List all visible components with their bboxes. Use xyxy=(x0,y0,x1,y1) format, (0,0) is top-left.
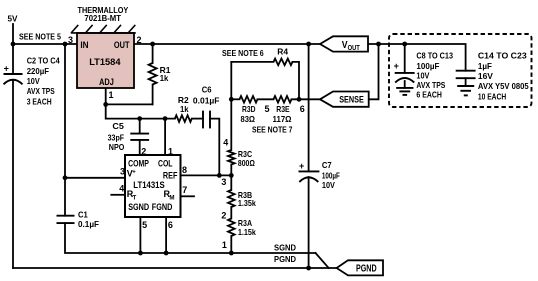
junction C7 branch top xyxy=(306,42,311,47)
svg-text:IN: IN xyxy=(80,40,88,51)
wire sense line between R3D R3E xyxy=(258,98,274,100)
wire node at x65 down to V+ xyxy=(64,44,66,178)
svg-text:C7: C7 xyxy=(322,160,332,170)
svg-text:+: + xyxy=(4,64,9,74)
svg-text:R3D: R3D xyxy=(242,104,256,114)
svg-text:6 EACH: 6 EACH xyxy=(416,89,442,99)
output flag VOUT xyxy=(320,36,368,51)
svg-text:SENSE: SENSE xyxy=(339,94,364,105)
svg-text:OUT: OUT xyxy=(114,40,130,51)
svg-text:7: 7 xyxy=(182,185,187,195)
junction C8 top xyxy=(402,42,407,47)
wire C7 branch upper xyxy=(308,44,310,171)
capacitor C5 33pF xyxy=(130,133,149,135)
junction REF R3 pin3 xyxy=(229,173,234,178)
wire R2 to C6 left plate xyxy=(192,118,203,120)
svg-text:1k: 1k xyxy=(160,73,169,83)
svg-text:1.15k: 1.15k xyxy=(238,227,256,237)
wire R3C to REF node pin 3 xyxy=(230,165,232,191)
svg-text:10V: 10V xyxy=(27,76,40,86)
svg-text:100µF: 100µF xyxy=(416,61,439,71)
svg-text:3: 3 xyxy=(221,177,226,187)
wire 5V vertical below C2 to PGND rail xyxy=(12,80,14,268)
junction R1 top xyxy=(150,42,155,47)
svg-text:OUT: OUT xyxy=(348,45,361,52)
resistor R2 1k xyxy=(175,115,192,122)
svg-text:1: 1 xyxy=(168,146,173,156)
wire R1 bottom lead xyxy=(152,85,154,105)
wire bypass rail to C14 xyxy=(405,44,466,71)
junction SGND pin6 xyxy=(164,251,169,256)
svg-text:800Ω: 800Ω xyxy=(238,158,255,168)
svg-text:10V: 10V xyxy=(322,180,335,190)
resistor R1 1k xyxy=(149,63,157,85)
svg-text:+: + xyxy=(394,61,399,71)
svg-text:83Ω: 83Ω xyxy=(241,114,256,124)
wire C5 bottom lead to COMP pin 2 xyxy=(139,140,141,155)
svg-text:AVX TPS: AVX TPS xyxy=(27,86,55,96)
resistor R3E 117ohm xyxy=(274,96,292,103)
svg-text:10V: 10V xyxy=(416,71,429,81)
svg-text:0.01µF: 0.01µF xyxy=(193,95,220,105)
wire C5 top lead xyxy=(139,119,141,134)
svg-text:ADJ: ADJ xyxy=(99,77,114,88)
svg-text:1k: 1k xyxy=(180,104,189,114)
svg-text:100µF: 100µF xyxy=(322,170,340,180)
svg-text:10 EACH: 10 EACH xyxy=(478,91,506,101)
svg-text:AVX Y5V 0805: AVX Y5V 0805 xyxy=(478,81,529,91)
regulator U1 LT1584 body xyxy=(77,33,134,88)
svg-text:220µF: 220µF xyxy=(27,66,49,76)
output flag SENSE xyxy=(320,92,369,107)
resistor R3D 83ohm xyxy=(240,96,258,103)
wire ADJ node down and right to R2 xyxy=(106,104,175,118)
capacitor C7 100uF xyxy=(299,170,320,172)
capacitor C2-C4 input xyxy=(4,73,23,75)
svg-text:5V: 5V xyxy=(8,14,18,24)
wire FGND pin 6 xyxy=(165,217,167,253)
svg-text:C14 TO C23: C14 TO C23 xyxy=(478,50,527,60)
svg-text:PGND: PGND xyxy=(274,254,296,264)
wire SENSE flag right kelvin connection xyxy=(369,44,379,99)
junction PGND C7 xyxy=(306,266,311,271)
svg-text:4: 4 xyxy=(119,184,124,194)
svg-text:T: T xyxy=(133,194,137,201)
wire sense line left xyxy=(231,98,239,100)
svg-text:8: 8 xyxy=(182,165,187,175)
wire SGND pin 5 xyxy=(139,217,141,253)
wire RT pin 4 stub xyxy=(111,194,125,196)
svg-text:1: 1 xyxy=(109,90,114,100)
svg-text:SEE NOTE 5: SEE NOTE 5 xyxy=(19,32,61,42)
junction 5V rail left xyxy=(11,42,16,47)
resistor R3C 800ohm xyxy=(228,150,235,165)
junction C5 tap xyxy=(137,116,142,121)
wire R3 network top lead pin 4 xyxy=(230,99,232,150)
wire OUT pin to VOUT flag xyxy=(134,43,320,45)
svg-text:2: 2 xyxy=(141,146,146,156)
svg-text:R3E: R3E xyxy=(276,104,290,114)
wire C14 ground lead xyxy=(465,78,467,86)
svg-text:3: 3 xyxy=(68,35,73,45)
svg-text:SEE NOTE 7: SEE NOTE 7 xyxy=(252,124,293,134)
wire RM pin 7 stub xyxy=(181,195,195,197)
svg-text:PGND: PGND xyxy=(356,264,377,275)
junction REF C6 xyxy=(217,173,222,178)
wire 5V input vertical xyxy=(12,24,14,74)
svg-text:6: 6 xyxy=(168,220,173,230)
svg-text:1: 1 xyxy=(222,240,227,250)
capacitor C14-C23 xyxy=(456,70,476,72)
junction SGND pin5 xyxy=(138,251,143,256)
svg-text:3: 3 xyxy=(120,167,125,177)
svg-text:33pF: 33pF xyxy=(108,132,125,142)
svg-text:117Ω: 117Ω xyxy=(273,114,292,124)
wire R1 top lead xyxy=(152,44,154,63)
svg-text:NPO: NPO xyxy=(109,142,125,152)
svg-text:6: 6 xyxy=(300,104,305,114)
capacitor C8-C13 xyxy=(395,72,415,74)
wire SGND diagonal to PGND xyxy=(316,253,329,268)
svg-text:COMP: COMP xyxy=(128,159,149,169)
wire ADJ node to R1 xyxy=(106,103,153,105)
junction sense line left xyxy=(229,97,234,102)
svg-text:7021B-MT: 7021B-MT xyxy=(84,13,121,23)
svg-text:COL: COL xyxy=(158,158,173,168)
svg-text:3 EACH: 3 EACH xyxy=(27,96,52,106)
junction SGND R3A xyxy=(229,251,234,256)
svg-text:1µF: 1µF xyxy=(478,61,492,71)
shunt regulator U2 LT1431S body xyxy=(125,155,181,217)
junction sense line right xyxy=(297,97,302,102)
svg-text:+: + xyxy=(299,161,304,171)
wire VOUT flag to bypass box xyxy=(368,43,405,45)
wire R4 branch left vertical xyxy=(230,62,232,99)
junction VOUT right xyxy=(376,42,381,47)
svg-text:LT1431S: LT1431S xyxy=(133,180,164,190)
heatsink line THERMALLOY xyxy=(71,32,136,34)
wire V+ pin 3 xyxy=(65,177,125,179)
wire sense line to SENSE flag xyxy=(292,98,321,100)
capacitor C6 0.01uF xyxy=(202,111,204,129)
svg-text:5: 5 xyxy=(142,220,147,230)
wire C1 branch lower to SGND xyxy=(65,223,140,253)
wire ADJ pin 1 xyxy=(105,88,107,104)
svg-text:2: 2 xyxy=(221,211,226,221)
wire COL pin 1 xyxy=(164,119,166,155)
svg-text:1.35k: 1.35k xyxy=(238,198,256,208)
svg-text:SEE NOTE 6: SEE NOTE 6 xyxy=(222,48,264,58)
wire R3A to SGND pin 1 xyxy=(230,236,232,253)
svg-text:C8 TO C13: C8 TO C13 xyxy=(416,51,453,61)
ground symbol under C14 xyxy=(457,85,474,87)
wire 5V rail to IN pin xyxy=(13,43,77,45)
svg-text:0.1µF: 0.1µF xyxy=(78,219,99,229)
svg-text:4: 4 xyxy=(223,138,228,148)
svg-text:C5: C5 xyxy=(112,121,124,131)
wire C8 ground lead xyxy=(404,81,406,88)
wire R4 top left lead xyxy=(231,61,273,63)
svg-text:R4: R4 xyxy=(277,46,288,56)
svg-text:+: + xyxy=(132,169,136,175)
resistor R3B 1.35k xyxy=(228,190,235,207)
wire C7 branch lower to PGND xyxy=(308,177,310,268)
svg-text:M: M xyxy=(169,194,174,201)
svg-text:2: 2 xyxy=(137,35,142,45)
junction V+ C1 xyxy=(63,175,68,180)
svg-text:16V: 16V xyxy=(478,71,493,81)
wire C8 top lead xyxy=(404,44,406,73)
ground symbol under C8 xyxy=(396,87,413,89)
resistor R4 xyxy=(274,59,293,66)
wire R4 right lead and vertical xyxy=(293,62,300,99)
resistor R3A 1.15k xyxy=(228,219,235,237)
svg-text:C2 TO C4: C2 TO C4 xyxy=(27,56,60,66)
wire R3B to R3A pin 2 xyxy=(230,207,232,219)
capacitor C1 xyxy=(57,215,75,217)
svg-text:C6: C6 xyxy=(202,84,212,94)
wire PGND rail xyxy=(13,267,337,269)
svg-text:SGND: SGND xyxy=(128,202,149,212)
svg-text:SGND: SGND xyxy=(274,242,296,252)
output flag PGND xyxy=(337,260,383,275)
dashed bypass capacitor box xyxy=(389,34,532,107)
wire C1 branch upper xyxy=(64,178,66,216)
junction node x65 xyxy=(63,42,68,47)
svg-text:FGND: FGND xyxy=(152,202,173,212)
junction COL tap xyxy=(163,116,168,121)
junction ADJ node xyxy=(103,102,108,107)
svg-text:5: 5 xyxy=(265,104,270,114)
svg-text:LT1584: LT1584 xyxy=(89,57,121,68)
svg-text:C1: C1 xyxy=(78,209,88,219)
wire SGND rail xyxy=(140,252,315,254)
svg-text:REF: REF xyxy=(163,170,178,180)
wire REF pin 8 line xyxy=(181,174,232,176)
wire C6 right plate to REF line xyxy=(210,119,219,176)
